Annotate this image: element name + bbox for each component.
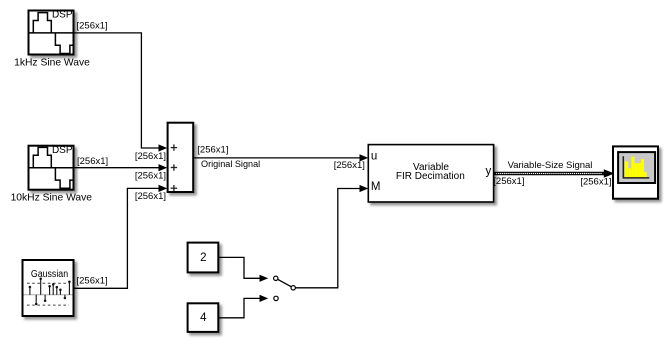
- svg-text:y: y: [486, 166, 492, 178]
- svg-text:Variable-Size Signal: Variable-Size Signal: [508, 160, 593, 171]
- svg-text:u: u: [371, 151, 377, 163]
- svg-text:FIR Decimation: FIR Decimation: [396, 171, 465, 182]
- svg-text:[256x1]: [256x1]: [493, 176, 524, 187]
- svg-text:[256x1]: [256x1]: [580, 176, 611, 187]
- svg-text:M: M: [371, 181, 381, 193]
- svg-text:2: 2: [200, 252, 206, 264]
- svg-text:DSP: DSP: [52, 145, 73, 156]
- svg-text:[256x1]: [256x1]: [334, 160, 365, 171]
- svg-text:[256x1]: [256x1]: [135, 191, 166, 202]
- svg-text:[256x1]: [256x1]: [197, 145, 228, 156]
- svg-text:10kHz Sine Wave: 10kHz Sine Wave: [11, 193, 93, 204]
- svg-text:4: 4: [200, 312, 207, 324]
- svg-text:[256x1]: [256x1]: [77, 156, 108, 167]
- svg-text:[256x1]: [256x1]: [77, 21, 108, 32]
- svg-text:[256x1]: [256x1]: [135, 151, 166, 162]
- svg-text:[256x1]: [256x1]: [135, 171, 166, 182]
- svg-text:Gaussian: Gaussian: [31, 269, 68, 280]
- svg-text:[256x1]: [256x1]: [77, 275, 108, 286]
- svg-text:DSP: DSP: [52, 10, 73, 21]
- svg-text:1kHz Sine Wave: 1kHz Sine Wave: [14, 58, 90, 69]
- svg-text:Original Signal: Original Signal: [201, 159, 260, 169]
